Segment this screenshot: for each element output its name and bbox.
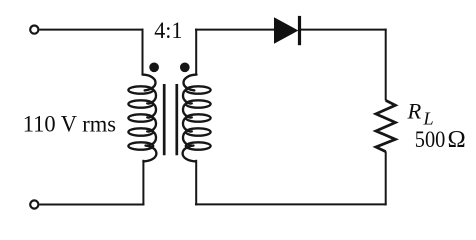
- diode D1: [274, 16, 301, 45]
- polarity dot primary: [149, 62, 159, 72]
- wire top-left horizontal: [39, 29, 143, 31]
- secondary winding (right coil): [183, 75, 211, 162]
- primary winding (left coil): [128, 75, 156, 162]
- wire top secondary horizontal to diode anode: [195, 29, 275, 31]
- wire diode cathode to top-right corner: [300, 29, 387, 31]
- resistor RL zigzag: [376, 100, 396, 151]
- wire right rail lower: [385, 151, 387, 205]
- svg-text:500Ω: 500Ω: [415, 126, 466, 153]
- core line left: [163, 84, 166, 155]
- diode cathode bar: [298, 16, 301, 45]
- terminal top-left: [30, 26, 38, 34]
- wire secondary bottom stub: [195, 160, 197, 206]
- polarity dot secondary: [180, 62, 190, 72]
- transformer T1: [128, 62, 210, 161]
- svg-text:4:1: 4:1: [154, 18, 182, 44]
- wire secondary top stub: [195, 29, 197, 76]
- wire primary top stub: [142, 29, 144, 76]
- wire bottom-left horizontal: [39, 204, 144, 206]
- wire primary bottom stub: [142, 160, 144, 206]
- diode triangle anode: [274, 17, 298, 43]
- wire bottom secondary horizontal: [195, 203, 387, 205]
- terminal bottom-left: [30, 200, 38, 208]
- svg-text:110 V rms: 110 V rms: [23, 112, 116, 137]
- core line right: [175, 84, 178, 155]
- wire right rail upper: [385, 29, 387, 101]
